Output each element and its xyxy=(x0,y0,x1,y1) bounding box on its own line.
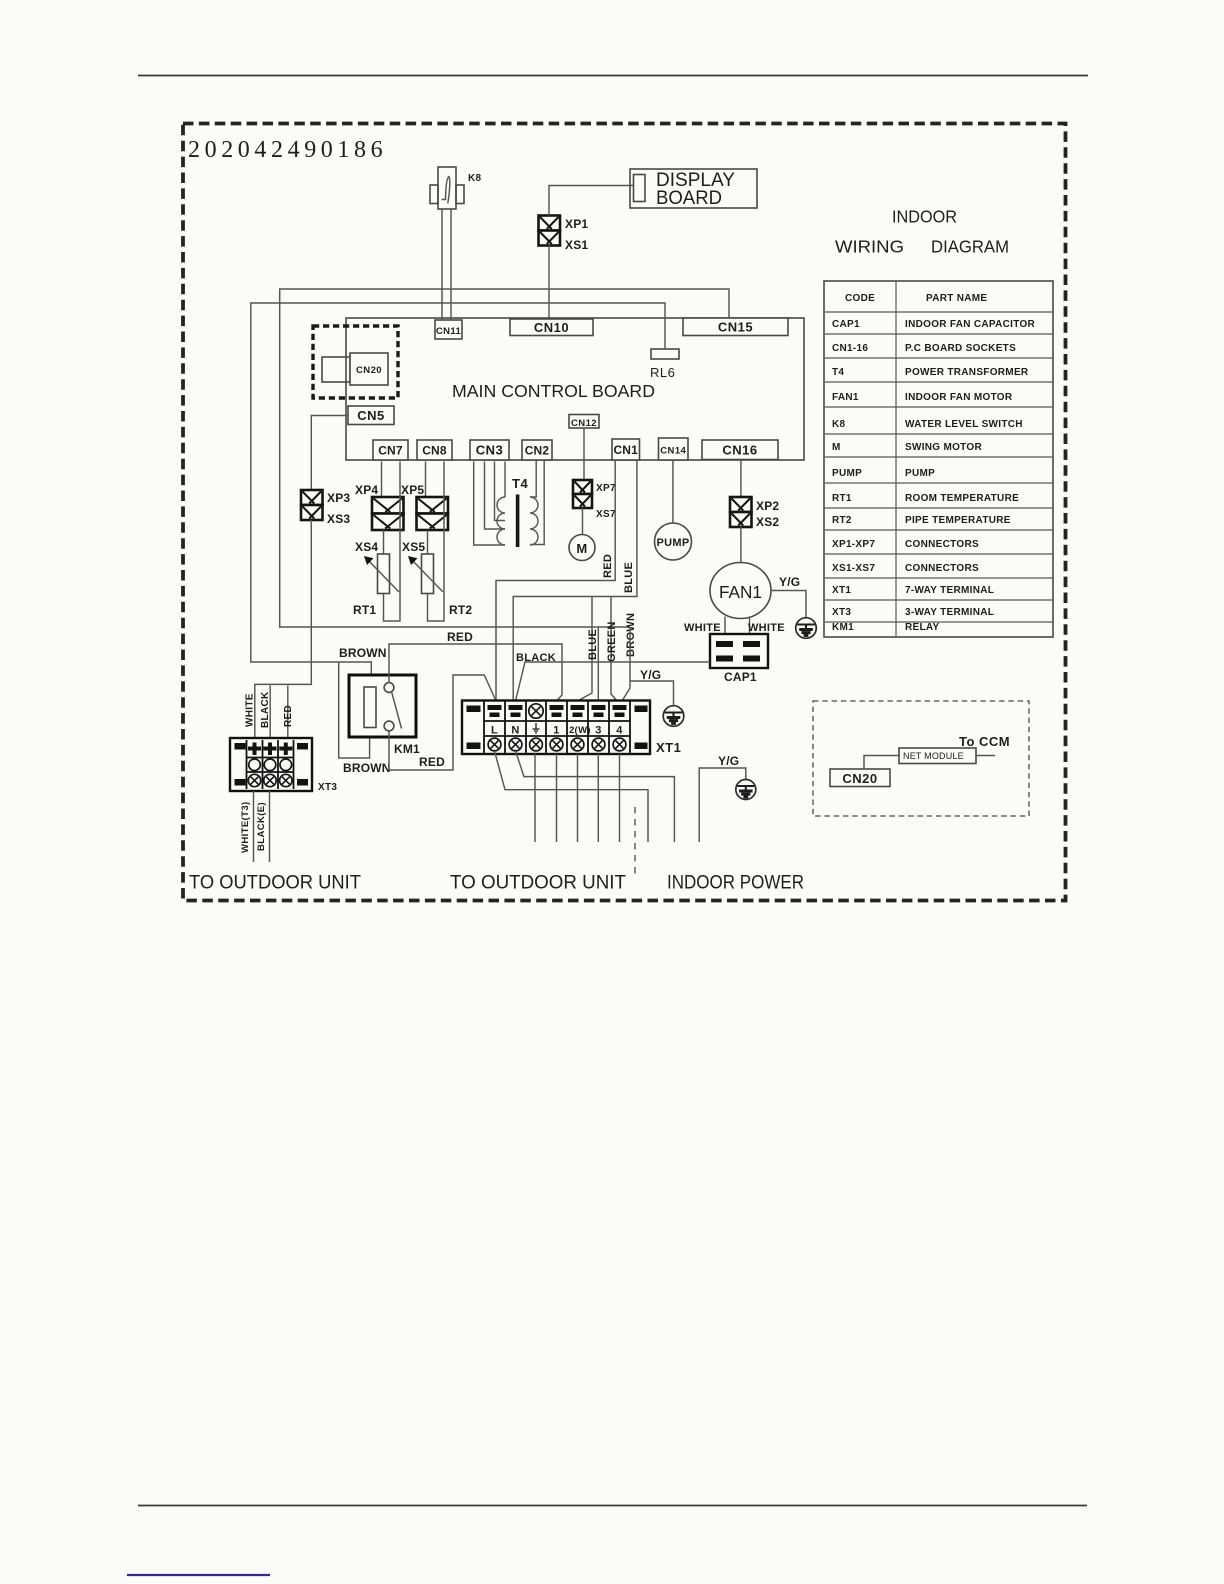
socket CN12 xyxy=(569,415,599,429)
svg-text:CN15: CN15 xyxy=(718,319,753,334)
svg-text:N: N xyxy=(511,725,519,737)
svg-text:XS2: XS2 xyxy=(756,515,779,529)
wire CN12 to XP7 xyxy=(583,428,585,480)
svg-text:KM1: KM1 xyxy=(394,742,420,756)
dashed separator xyxy=(634,807,636,874)
connector XP3/XS3 xyxy=(301,490,350,526)
svg-text:P.C BOARD SOCKETS: P.C BOARD SOCKETS xyxy=(905,343,1016,354)
svg-text:CN12: CN12 xyxy=(571,418,597,429)
wire CN8 left pin to XP5 xyxy=(425,462,427,498)
transformer T4 xyxy=(474,461,545,547)
socket CN15 xyxy=(683,318,788,336)
wire XS4 to RT1 xyxy=(383,530,385,554)
wire brown drop / Y-G branch xyxy=(622,627,674,706)
socket CN20 xyxy=(830,769,890,787)
ground symbol (XT1) xyxy=(663,706,684,727)
svg-text:(W): (W) xyxy=(575,725,592,736)
svg-text:XT1: XT1 xyxy=(656,740,681,755)
wire Y/G indoor power xyxy=(699,768,746,842)
socket CN7 xyxy=(373,440,408,460)
svg-text:BROWN: BROWN xyxy=(625,613,637,657)
legend table xyxy=(824,281,1053,637)
water level switch K8 xyxy=(430,167,482,209)
wire green to XT1 terminal 4 xyxy=(611,597,617,702)
svg-text:RT2: RT2 xyxy=(449,603,472,617)
svg-text:XP7: XP7 xyxy=(596,483,616,494)
svg-text:WHITE: WHITE xyxy=(245,693,256,727)
label GREEN xyxy=(606,621,618,662)
wire KM1 top contact red to XT1 terminal 1 xyxy=(389,644,562,701)
terminal block XT3 xyxy=(230,738,337,793)
svg-text:BLUE: BLUE xyxy=(587,629,599,660)
svg-text:L: L xyxy=(491,725,498,737)
svg-text:XS3: XS3 xyxy=(327,512,350,526)
svg-text:WHITE: WHITE xyxy=(684,622,721,634)
svg-text:CAP1: CAP1 xyxy=(832,319,860,330)
svg-text:BLACK: BLACK xyxy=(260,691,271,728)
bottom rule xyxy=(138,1505,1087,1507)
wire blue to XT1 terminal 2 xyxy=(578,597,593,702)
connector XP4/XS4 xyxy=(372,497,404,530)
ground symbol (fan) xyxy=(796,618,817,639)
svg-text:RED: RED xyxy=(447,630,473,644)
svg-text:ROOM TEMPERATURE: ROOM TEMPERATURE xyxy=(905,493,1019,504)
display board xyxy=(630,169,757,209)
wire CN1 blue to XT1 N xyxy=(513,460,637,701)
svg-text:XP5: XP5 xyxy=(401,483,424,497)
wire N to indoor power xyxy=(516,751,675,842)
svg-text:XP1: XP1 xyxy=(565,217,588,231)
socket CN1 xyxy=(612,439,640,460)
svg-text:3: 3 xyxy=(595,725,601,737)
thermistor RT1 xyxy=(353,554,399,617)
net module xyxy=(899,748,976,764)
footer link line xyxy=(127,1574,270,1576)
top rule xyxy=(138,75,1088,77)
main control board xyxy=(346,318,804,460)
wire black CAP1 to XT1 N xyxy=(516,662,711,701)
svg-text:7-WAY TERMINAL: 7-WAY TERMINAL xyxy=(905,585,994,596)
svg-text:XS7: XS7 xyxy=(596,509,616,520)
svg-text:CN8: CN8 xyxy=(422,444,447,458)
label RED xyxy=(602,554,614,578)
svg-text:CAP1: CAP1 xyxy=(724,670,757,684)
svg-text:CN3: CN3 xyxy=(476,443,504,458)
wire L to indoor power xyxy=(495,751,649,842)
svg-text:FAN1: FAN1 xyxy=(719,582,762,602)
label BROWN xyxy=(625,613,637,657)
dashed page border xyxy=(183,124,1066,901)
svg-text:WHITE(T3): WHITE(T3) xyxy=(240,801,251,853)
svg-text:FAN1: FAN1 xyxy=(832,392,859,403)
svg-text:CODE: CODE xyxy=(845,293,875,304)
terminal block XT1 xyxy=(462,701,681,756)
svg-text:RELAY: RELAY xyxy=(905,622,940,633)
wires XT3 to outdoor unit xyxy=(254,791,270,862)
wire black to XT3 xyxy=(269,686,271,739)
svg-text:XT1: XT1 xyxy=(832,585,851,596)
swing motor M xyxy=(569,535,595,561)
svg-text:T4: T4 xyxy=(832,367,844,378)
dashed option box around CN20 xyxy=(313,326,398,398)
wire bus RL6 / brown feed xyxy=(251,303,665,687)
svg-text:Y/G: Y/G xyxy=(640,668,661,682)
connector XP7/XS7 xyxy=(573,480,616,520)
pump motor PUMP xyxy=(655,523,692,560)
wire RT1 loop back to CN7 xyxy=(384,462,401,622)
svg-text:RED: RED xyxy=(602,554,614,578)
svg-text:Y/G: Y/G xyxy=(779,575,800,589)
svg-text:XT3: XT3 xyxy=(318,782,337,793)
svg-text:CN11: CN11 xyxy=(436,326,462,337)
svg-text:INDOOR POWER: INDOOR POWER xyxy=(667,873,804,894)
svg-text:INDOOR FAN MOTOR: INDOOR FAN MOTOR xyxy=(905,392,1013,403)
svg-text:3-WAY TERMINAL: 3-WAY TERMINAL xyxy=(905,607,994,618)
wire CN1 red to XT1 L xyxy=(496,460,615,701)
label WHITE xyxy=(245,693,256,727)
relay KM1 xyxy=(349,675,420,756)
capacitor CAP1 xyxy=(710,634,768,684)
wire CN16 to XP2 xyxy=(740,460,742,498)
svg-text:BLACK: BLACK xyxy=(516,652,556,664)
thermistor RT2 xyxy=(408,554,472,617)
svg-text:RT1: RT1 xyxy=(832,493,852,504)
svg-text:POWER TRANSFORMER: POWER TRANSFORMER xyxy=(905,367,1029,378)
svg-text:CN7: CN7 xyxy=(378,444,403,458)
svg-text:XP3: XP3 xyxy=(327,491,350,505)
svg-text:CN10: CN10 xyxy=(534,320,569,335)
dashed option box (net module) xyxy=(813,701,1029,816)
svg-text:INDOOR FAN CAPACITOR: INDOOR FAN CAPACITOR xyxy=(905,319,1036,330)
label BLACK xyxy=(260,691,271,728)
connector XP2/XS2 xyxy=(730,497,779,529)
svg-text:M: M xyxy=(832,442,841,453)
socket CN10 xyxy=(510,319,593,336)
fan motor FAN1 xyxy=(710,563,771,619)
svg-text:XS1-XS7: XS1-XS7 xyxy=(832,563,875,574)
wire XS5 to RT2 xyxy=(427,530,429,554)
svg-text:XT3: XT3 xyxy=(832,607,851,618)
svg-text:PUMP: PUMP xyxy=(905,468,935,479)
svg-text:4: 4 xyxy=(616,725,623,737)
svg-text:CN1: CN1 xyxy=(613,443,638,457)
connector XP1/XS1 xyxy=(539,216,589,253)
label RED xyxy=(283,705,294,727)
svg-text:XP4: XP4 xyxy=(355,483,378,497)
wire XS3 down to XT3 white xyxy=(255,520,311,738)
svg-text:GREEN: GREEN xyxy=(606,621,618,662)
label BLUE xyxy=(623,562,635,593)
socket CN14 xyxy=(659,438,689,460)
wire K8 to CN11 xyxy=(442,209,451,320)
svg-text:RED: RED xyxy=(419,755,445,769)
svg-text:BOARD: BOARD xyxy=(656,188,722,209)
svg-text:M: M xyxy=(576,541,587,556)
socket CN11 xyxy=(435,320,462,339)
wire XS2 to FAN1 xyxy=(740,527,742,563)
svg-text:PART NAME: PART NAME xyxy=(926,293,987,304)
wire net module to CCM xyxy=(976,755,995,757)
socket CN3 xyxy=(470,440,509,460)
svg-text:XS4: XS4 xyxy=(355,540,378,554)
svg-text:XP1-XP7: XP1-XP7 xyxy=(832,539,875,550)
wire bus CN15 / red feed xyxy=(280,289,729,627)
svg-text:WIRING: WIRING xyxy=(835,237,904,257)
svg-text:XS5: XS5 xyxy=(402,540,425,554)
relay coil socket RL6 xyxy=(650,349,679,380)
svg-text:INDOOR: INDOOR xyxy=(892,207,957,227)
svg-text:BROWN: BROWN xyxy=(343,761,391,775)
socket CN2 xyxy=(522,440,552,460)
svg-text:1: 1 xyxy=(553,725,559,737)
wire CN20 to net module xyxy=(864,756,899,770)
svg-text:CN20: CN20 xyxy=(356,365,382,376)
svg-text:PIPE TEMPERATURE: PIPE TEMPERATURE xyxy=(905,515,1011,526)
svg-text:202042490186: 202042490186 xyxy=(188,137,387,163)
svg-text:DIAGRAM: DIAGRAM xyxy=(931,237,1009,257)
svg-text:CN14: CN14 xyxy=(660,446,686,457)
svg-text:BLUE: BLUE xyxy=(623,562,635,593)
svg-text:Y/G: Y/G xyxy=(718,754,739,768)
svg-text:CN2: CN2 xyxy=(525,444,550,458)
svg-text:PUMP: PUMP xyxy=(657,537,690,549)
socket CN5 xyxy=(348,406,394,425)
socket CN16 xyxy=(702,440,778,460)
wire FAN1 Y/G to ground xyxy=(771,591,806,618)
label BLUE xyxy=(587,629,599,660)
svg-text:RT2: RT2 xyxy=(832,515,852,526)
wire brown loop (coil return) xyxy=(339,662,370,758)
svg-text:TO OUTDOOR UNIT: TO OUTDOOR UNIT xyxy=(450,873,626,894)
socket CN20 xyxy=(322,353,388,385)
svg-text:NET MODULE: NET MODULE xyxy=(903,751,964,761)
connector XP5/XS5 xyxy=(417,497,449,530)
svg-text:MAIN CONTROL BOARD: MAIN CONTROL BOARD xyxy=(452,381,655,401)
wire XS7 to swing motor xyxy=(582,508,584,535)
svg-text:CN1-16: CN1-16 xyxy=(832,343,868,354)
wire CN7 left pin to XP4 xyxy=(381,462,383,498)
wire red drop to XT1 terminal 3 xyxy=(597,627,599,701)
wire red to XT3 xyxy=(287,686,289,739)
svg-text:KM1: KM1 xyxy=(832,622,854,633)
svg-text:BROWN: BROWN xyxy=(339,646,387,660)
wire XS1 to CN10 xyxy=(548,246,550,320)
wires FAN1 to CAP1 (white) xyxy=(725,617,750,642)
svg-text:K8: K8 xyxy=(832,419,846,430)
svg-text:RED: RED xyxy=(283,705,294,727)
svg-text:T4: T4 xyxy=(512,476,528,491)
wire RT2 loop back to CN8 xyxy=(428,462,445,622)
svg-text:XP2: XP2 xyxy=(756,499,779,513)
svg-text:CN16: CN16 xyxy=(722,442,757,457)
svg-text:CN20: CN20 xyxy=(842,771,877,786)
svg-text:XS1: XS1 xyxy=(565,238,588,252)
svg-text:To CCM: To CCM xyxy=(959,734,1010,749)
svg-text:CN5: CN5 xyxy=(357,408,385,423)
svg-text:TO OUTDOOR UNIT: TO OUTDOOR UNIT xyxy=(189,873,361,894)
wire CN14 to pump xyxy=(672,461,674,524)
wire CN5 to XP3 xyxy=(311,416,348,491)
svg-text:SWING MOTOR: SWING MOTOR xyxy=(905,442,982,453)
svg-text:K8: K8 xyxy=(468,173,482,184)
wire KM1 bottom contact red to XT1 L xyxy=(389,675,496,770)
svg-text:WATER LEVEL SWITCH: WATER LEVEL SWITCH xyxy=(905,419,1023,430)
ground symbol (indoor power) xyxy=(736,780,756,800)
label WHITE(T3) xyxy=(240,801,251,853)
svg-text:PUMP: PUMP xyxy=(832,468,862,479)
label BLACK(E) xyxy=(256,802,267,851)
svg-text:BLACK(E): BLACK(E) xyxy=(256,802,267,851)
svg-text:CONNECTORS: CONNECTORS xyxy=(905,563,979,574)
svg-text:WHITE: WHITE xyxy=(748,622,785,634)
wire XP1 to display board xyxy=(549,186,633,216)
svg-text:RT1: RT1 xyxy=(353,603,376,617)
socket CN8 xyxy=(417,440,452,460)
svg-text:CONNECTORS: CONNECTORS xyxy=(905,539,979,550)
wires XT1 to outdoor unit xyxy=(535,754,620,842)
svg-text:RL6: RL6 xyxy=(650,365,675,380)
